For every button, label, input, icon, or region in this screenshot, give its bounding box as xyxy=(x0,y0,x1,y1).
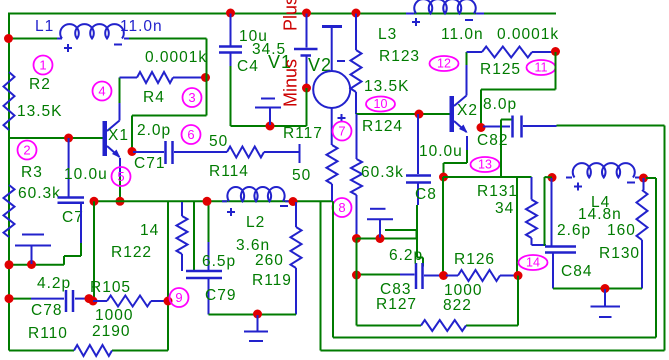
label 4.2p C78 xyxy=(37,275,71,292)
label R110 xyxy=(28,325,68,342)
label X2 xyxy=(457,102,478,119)
label C4 xyxy=(237,58,259,75)
junction L4 right xyxy=(639,174,648,183)
label 14.8n L4 xyxy=(578,206,622,223)
wire C7 bottom path xyxy=(64,204,81,265)
V2 minus mark xyxy=(337,60,345,62)
inductor L3 xyxy=(406,0,484,13)
ground G4 xyxy=(244,315,268,341)
junction C89 left xyxy=(352,271,361,280)
svg-text:0.0001k: 0.0001k xyxy=(145,49,207,66)
svg-text:C78: C78 xyxy=(31,302,62,319)
label 0.0001k R4 xyxy=(145,49,207,66)
label 0.0001k R125 xyxy=(497,26,559,43)
resistor R125 xyxy=(482,47,553,58)
capacitor C79 xyxy=(186,271,222,315)
inductor L1 xyxy=(57,24,129,38)
wire X1 emitter lead xyxy=(119,158,121,201)
ground G5 xyxy=(591,289,621,317)
node 10 xyxy=(366,97,395,112)
L3 polarity xyxy=(412,18,473,26)
junction C79 top xyxy=(203,197,212,206)
wire bottom left xyxy=(9,350,168,352)
inductor L4 xyxy=(566,163,640,177)
wire gnd row xyxy=(357,230,417,239)
svg-text:12: 12 xyxy=(437,57,451,71)
svg-text:R124: R124 xyxy=(362,118,403,135)
label 3.6n L2 xyxy=(236,237,270,254)
label 50 R114 xyxy=(209,133,228,150)
resistor R123 xyxy=(351,14,362,115)
label R122 xyxy=(111,244,152,261)
label 11.0n L1 xyxy=(120,18,163,35)
svg-text:50: 50 xyxy=(292,167,311,184)
svg-text:Minus: Minus xyxy=(281,59,301,107)
wire L1 row xyxy=(9,38,207,40)
capacitor C78 xyxy=(9,290,89,312)
label C8 xyxy=(415,186,437,203)
node 11 xyxy=(527,60,556,75)
svg-text:R3: R3 xyxy=(21,164,43,181)
svg-text:10.0u: 10.0u xyxy=(64,166,108,183)
svg-text:R130: R130 xyxy=(599,245,640,262)
svg-text:10: 10 xyxy=(374,97,388,111)
label 60.3k R3 xyxy=(18,185,61,202)
svg-text:4.2p: 4.2p xyxy=(37,275,71,292)
label 11.0n L3 xyxy=(441,26,484,43)
node 1 xyxy=(34,56,53,75)
label R2 xyxy=(29,76,51,93)
resistor R114 xyxy=(227,147,264,158)
resistor R117 xyxy=(327,145,338,201)
resistor R131 xyxy=(526,177,546,245)
label C79 xyxy=(205,287,236,304)
junction gnd G3 xyxy=(376,234,385,243)
resistor R2 xyxy=(4,72,15,130)
svg-text:10.0u: 10.0u xyxy=(419,143,463,160)
label 160 xyxy=(607,222,636,239)
wire R4 left lead xyxy=(120,77,138,79)
L4 polarity xyxy=(574,183,635,191)
label 14 R122 xyxy=(140,222,159,239)
label C84 xyxy=(561,263,592,280)
label R126 xyxy=(454,251,495,268)
svg-text:2.6p: 2.6p xyxy=(557,222,591,239)
wire C79 right riser xyxy=(208,201,210,271)
ground G1 inverted xyxy=(15,235,51,265)
label 822 xyxy=(443,297,472,314)
svg-text:11.0n: 11.0n xyxy=(120,18,163,35)
wire node13 riser xyxy=(501,120,512,178)
junction R105 left xyxy=(89,297,98,306)
label 10.0u C7 xyxy=(64,166,108,183)
label V2 xyxy=(308,55,332,75)
svg-text:822: 822 xyxy=(443,297,472,314)
svg-text:3: 3 xyxy=(188,90,195,105)
svg-text:1: 1 xyxy=(39,58,46,73)
resistor R110 xyxy=(74,345,112,356)
wire top border xyxy=(8,13,556,15)
wire C8 bottom path xyxy=(417,205,423,267)
label 10u C4 xyxy=(239,28,268,45)
svg-text:X1: X1 xyxy=(108,127,129,144)
svg-text:11: 11 xyxy=(535,61,548,75)
label V1 xyxy=(268,52,292,72)
svg-text:R125: R125 xyxy=(480,61,521,78)
wire R125 to C82 xyxy=(481,52,556,127)
label 6.2p C89 xyxy=(389,247,423,264)
junction C78 left xyxy=(5,294,14,303)
wire L4 bottom row xyxy=(553,288,642,290)
wire node10 row xyxy=(356,113,450,115)
capacitor C71 xyxy=(133,141,227,164)
node 8 xyxy=(333,198,352,217)
junction emitter xyxy=(116,197,125,206)
svg-text:260: 260 xyxy=(255,252,284,269)
wire R127 right column xyxy=(517,276,519,326)
wire C79 bottom row xyxy=(209,314,297,316)
wire V1 bottom row xyxy=(231,125,307,127)
svg-text:R110: R110 xyxy=(28,325,68,342)
node 5 xyxy=(112,167,131,186)
wire C79 left riser xyxy=(193,201,195,271)
resistor R4 xyxy=(137,72,173,83)
junction mid row left xyxy=(90,197,99,206)
svg-text:9: 9 xyxy=(175,290,182,305)
label 2.6p C84 xyxy=(557,222,591,239)
label Plus V1 xyxy=(281,0,301,31)
svg-text:11.0n: 11.0n xyxy=(441,26,484,43)
wire mid row xyxy=(94,200,333,202)
label R114 xyxy=(209,163,249,180)
svg-text:8: 8 xyxy=(338,200,345,215)
svg-text:2: 2 xyxy=(23,143,30,158)
svg-text:Plus: Plus xyxy=(281,0,301,31)
capacitor C8 xyxy=(406,114,431,205)
wire X2 emitter xyxy=(444,136,468,177)
svg-text:0.0001k: 0.0001k xyxy=(497,26,559,43)
svg-text:R2: R2 xyxy=(29,76,51,93)
wire bottom outer row xyxy=(321,350,665,352)
source V2 top bar xyxy=(322,27,342,72)
svg-text:R131: R131 xyxy=(477,183,518,200)
capacitor C84 xyxy=(545,178,576,289)
resistor R126 xyxy=(446,270,517,281)
svg-text:L2: L2 xyxy=(246,214,265,231)
svg-text:R126: R126 xyxy=(454,251,495,268)
svg-text:R4: R4 xyxy=(143,89,165,106)
wire L4 right column xyxy=(655,178,657,338)
svg-text:L3: L3 xyxy=(378,26,397,43)
svg-text:X2: X2 xyxy=(457,102,478,119)
wire R114 right lead xyxy=(264,144,300,163)
ground G2 inverted xyxy=(255,99,281,126)
wire R4 column xyxy=(206,39,208,78)
wire node9 column xyxy=(167,201,169,350)
svg-text:R105: R105 xyxy=(90,279,131,296)
wire node13 row xyxy=(443,176,532,178)
label 1000 R126 xyxy=(444,282,482,299)
wire R127 left column xyxy=(356,239,358,326)
battery V1 xyxy=(294,14,318,89)
junction C8 top xyxy=(415,110,424,119)
label R105 xyxy=(90,279,131,296)
label C83 xyxy=(380,281,411,298)
wire bottom mid row xyxy=(333,337,656,339)
junction R4 right xyxy=(201,73,210,82)
svg-text:6: 6 xyxy=(187,127,194,142)
wire V1 to bottom row xyxy=(306,88,308,126)
svg-text:1000: 1000 xyxy=(95,307,133,324)
junction C78 right xyxy=(85,294,94,303)
junction R124 bottom xyxy=(352,234,361,243)
svg-text:6.2p: 6.2p xyxy=(389,247,423,264)
junction R126 right xyxy=(514,271,523,280)
label 60.3k R124 xyxy=(361,164,404,181)
junction R125 right xyxy=(551,47,560,56)
label 260 xyxy=(255,252,284,269)
svg-text:14: 14 xyxy=(526,256,540,270)
svg-text:2190: 2190 xyxy=(92,323,130,340)
svg-text:13.5K: 13.5K xyxy=(17,103,63,120)
source V2 xyxy=(313,71,350,108)
label 13.5K R2 xyxy=(17,103,63,120)
capacitor C4 xyxy=(219,14,242,67)
svg-text:6.5p: 6.5p xyxy=(202,253,236,270)
wire R4 right lead xyxy=(173,77,205,79)
junction border-gnd xyxy=(5,260,14,269)
node 9 xyxy=(170,288,189,307)
svg-text:R123: R123 xyxy=(379,48,420,65)
svg-text:7: 7 xyxy=(338,124,345,139)
resistor R127 xyxy=(421,320,466,331)
label R125 xyxy=(480,61,521,78)
inductor L2 xyxy=(222,187,290,201)
wire left border xyxy=(8,14,10,351)
svg-text:8.0p: 8.0p xyxy=(483,96,517,113)
label 1000 R105 xyxy=(95,307,133,324)
label L4 xyxy=(591,194,610,211)
label R123 xyxy=(379,48,420,65)
junction border-L1 xyxy=(4,34,13,43)
label 2190 xyxy=(92,323,130,340)
wire right border xyxy=(664,126,666,351)
V2 plus mark xyxy=(338,114,346,122)
svg-text:4: 4 xyxy=(98,84,105,99)
L1 polarity marks xyxy=(64,44,122,52)
resistor R119 xyxy=(291,202,302,315)
node 3 xyxy=(183,88,202,107)
label L2 xyxy=(246,214,265,231)
node 2 xyxy=(18,141,37,160)
label 50 R117 xyxy=(292,167,311,184)
svg-text:13.5K: 13.5K xyxy=(364,78,410,95)
resistor R105 xyxy=(93,296,168,307)
svg-text:2.0p: 2.0p xyxy=(137,122,171,139)
wire C84 riser green xyxy=(545,177,553,246)
capacitor C7 xyxy=(58,138,85,203)
label L3 xyxy=(378,26,397,43)
wire L4 right jog xyxy=(646,177,656,179)
svg-text:C4: C4 xyxy=(237,58,259,75)
svg-text:160: 160 xyxy=(607,222,636,239)
wire R127 row xyxy=(357,325,519,327)
junction L4 left xyxy=(548,173,557,182)
svg-text:14: 14 xyxy=(140,222,159,239)
svg-text:R127: R127 xyxy=(376,296,417,313)
svg-text:C79: C79 xyxy=(205,287,236,304)
label 6.5p C79 xyxy=(202,253,236,270)
label X1 xyxy=(108,127,129,144)
svg-text:60.3k: 60.3k xyxy=(361,164,404,181)
svg-text:R117: R117 xyxy=(283,125,323,142)
capacitor C89 xyxy=(416,263,441,289)
label Minus V1 xyxy=(281,59,301,107)
transistor X1 xyxy=(103,121,121,159)
junction R123 top xyxy=(352,9,361,18)
wire node8 column xyxy=(332,201,334,337)
label C71 xyxy=(134,155,165,172)
label R117 xyxy=(283,125,323,142)
junction node13 row left xyxy=(439,173,448,182)
junction C71 left xyxy=(128,147,137,156)
svg-text:13: 13 xyxy=(478,158,492,172)
label 2.0p C71 xyxy=(137,122,171,139)
wire R4 to C71 xyxy=(132,78,207,152)
label 8.0p C82 xyxy=(483,96,517,113)
node 4 xyxy=(93,82,112,101)
svg-text:34: 34 xyxy=(495,200,514,217)
wire ground stub row xyxy=(9,264,64,266)
junction gnd G5 xyxy=(601,284,610,293)
wire base row xyxy=(9,137,103,139)
ground G3 inverted xyxy=(367,209,393,238)
junction R126 left xyxy=(439,271,448,280)
junction L2 right xyxy=(289,197,298,206)
label C78 xyxy=(31,302,62,319)
junction gnd G4 xyxy=(253,310,262,319)
svg-text:C84: C84 xyxy=(561,263,592,280)
svg-text:14.8n: 14.8n xyxy=(578,206,622,223)
label 13.5K R123 xyxy=(364,78,410,95)
junction C82 left xyxy=(477,123,486,132)
junction V1 top xyxy=(302,9,311,18)
node 7 xyxy=(333,122,352,141)
label 34.5 V1 xyxy=(252,41,286,58)
label R131 xyxy=(477,183,518,200)
svg-text:R122: R122 xyxy=(111,244,152,261)
node 13 xyxy=(471,157,500,172)
label R127 xyxy=(376,296,417,313)
label 34 R131 xyxy=(495,200,514,217)
junction R105 right xyxy=(164,297,173,306)
capacitor C82 xyxy=(483,116,557,138)
wire C89 column xyxy=(442,177,444,276)
wire out column xyxy=(320,201,322,350)
resistor R124 xyxy=(351,114,362,239)
svg-text:5: 5 xyxy=(117,169,124,184)
node 12 xyxy=(430,56,459,71)
svg-text:50: 50 xyxy=(209,133,228,150)
svg-text:C82: C82 xyxy=(477,132,508,149)
junction C7 top xyxy=(64,134,73,143)
junction gnd G2 xyxy=(266,122,275,131)
svg-text:R119: R119 xyxy=(252,272,292,289)
label R124 xyxy=(362,118,403,135)
wire X1 collector xyxy=(119,78,121,121)
label R4 xyxy=(143,89,165,106)
junction gnd stub xyxy=(27,260,36,269)
wire C82 out xyxy=(557,125,665,127)
label R130 xyxy=(599,245,640,262)
wire C4 column xyxy=(230,66,232,126)
L2 polarity xyxy=(227,206,288,216)
node 14 xyxy=(519,255,548,270)
svg-text:60.3k: 60.3k xyxy=(18,185,61,202)
resistor R122 xyxy=(177,202,188,271)
svg-text:C71: C71 xyxy=(134,155,165,172)
label R3 xyxy=(21,164,43,181)
label R119 xyxy=(252,272,292,289)
wire V2 bottom lead xyxy=(331,108,333,145)
label C7 xyxy=(62,209,84,226)
svg-text:L1: L1 xyxy=(35,18,54,35)
wire left column xyxy=(93,201,95,301)
svg-text:C8: C8 xyxy=(415,186,437,203)
transistor X2 xyxy=(450,96,468,134)
resistor R130 xyxy=(637,178,648,289)
junction C4 top xyxy=(226,9,235,18)
label 10.0u C8 xyxy=(419,143,463,160)
label L1 xyxy=(35,18,54,35)
node 6 xyxy=(182,125,201,144)
svg-text:R114: R114 xyxy=(209,163,249,180)
junction V1 bottom xyxy=(302,84,311,93)
label C82 xyxy=(477,132,508,149)
resistor R3 xyxy=(4,185,15,237)
wire node14 column xyxy=(516,177,518,276)
wire X2 collector xyxy=(467,52,483,96)
wire C89 left lead xyxy=(357,274,415,276)
